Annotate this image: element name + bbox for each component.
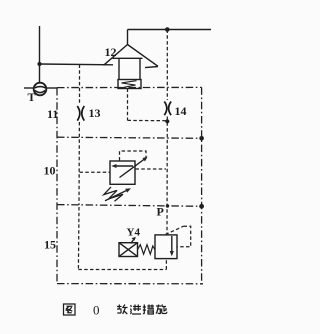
svg-text:15: 15 bbox=[44, 238, 56, 252]
svg-text:13: 13 bbox=[89, 106, 101, 120]
svg-text:14: 14 bbox=[175, 104, 187, 118]
svg-text:P: P bbox=[157, 205, 164, 219]
svg-text:11: 11 bbox=[47, 107, 58, 121]
svg-text:12: 12 bbox=[105, 45, 117, 59]
svg-text:0: 0 bbox=[93, 303, 100, 318]
svg-text:Y4: Y4 bbox=[127, 227, 141, 239]
svg-text:10: 10 bbox=[44, 164, 56, 178]
svg-text:T: T bbox=[28, 90, 36, 104]
